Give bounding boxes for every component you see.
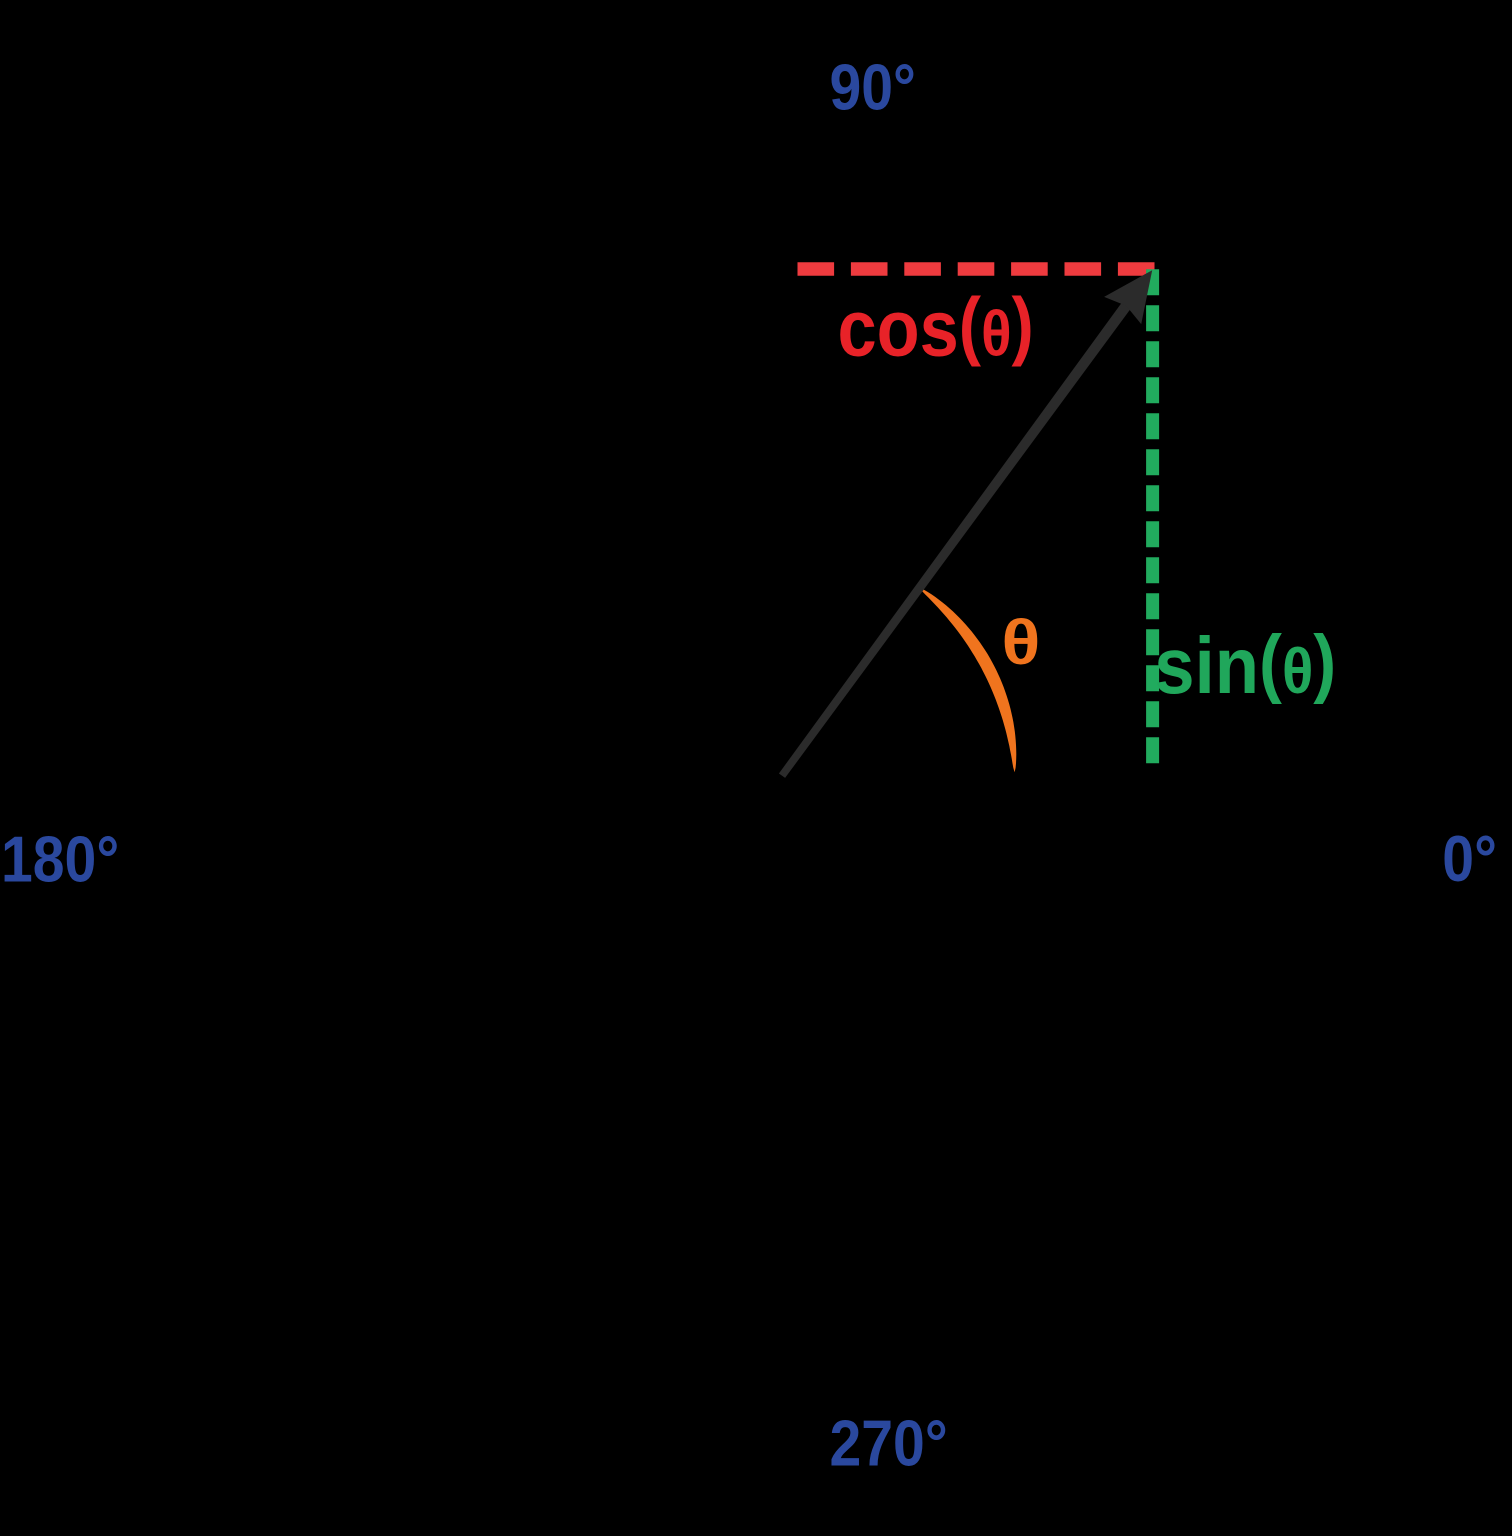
svg-text:0°: 0° — [1442, 822, 1497, 895]
svg-text:90°: 90° — [830, 51, 916, 124]
radius arrow head (dark gray) — [1104, 270, 1152, 324]
svg-text:180°: 180° — [1, 823, 119, 896]
theta angle arc (orange, tapered) — [919, 588, 1016, 773]
radius arrow shaft (dark gray) — [779, 294, 1137, 778]
svg-text:θ: θ — [1002, 608, 1041, 678]
sin projection dashed line (green) — [1146, 269, 1159, 763]
svg-text:270°: 270° — [830, 1407, 948, 1480]
cos projection dashed line (red) — [798, 262, 1155, 276]
